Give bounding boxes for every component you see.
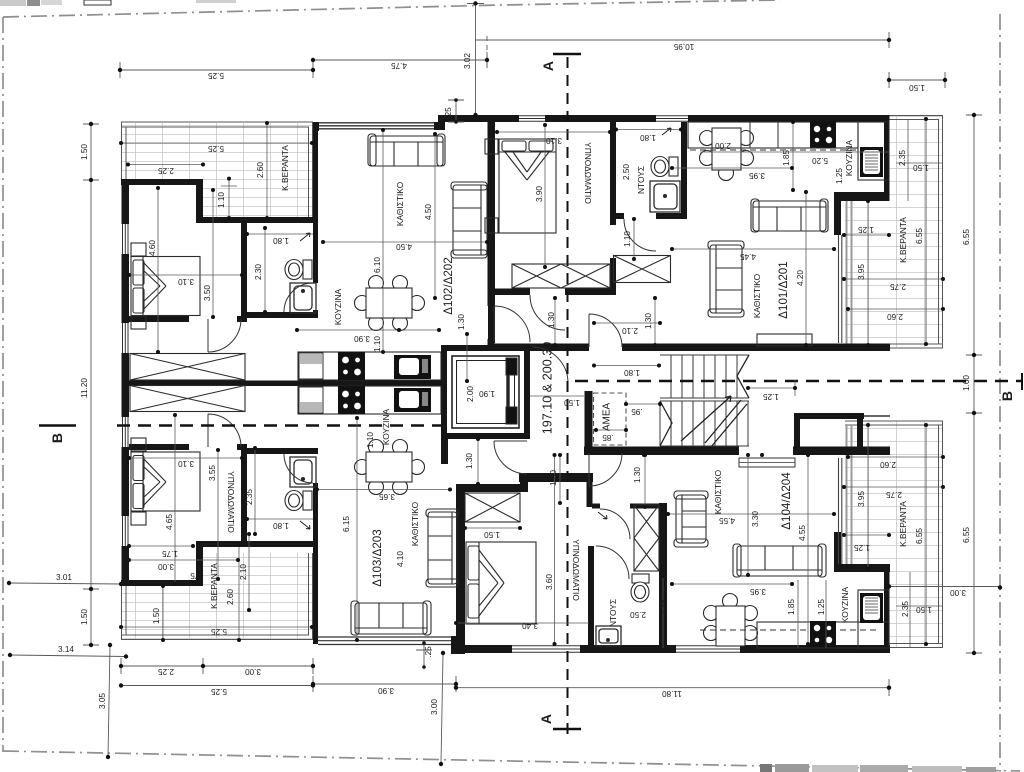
room labels: [209, 139, 908, 627]
sofa Delta101 top: [751, 199, 828, 232]
svg-text:2.60: 2.60: [226, 589, 235, 605]
door arc Delta101 bathroom: [624, 219, 656, 251]
svg-text:1.85: 1.85: [782, 150, 791, 166]
property boundary dash-dot right: [999, 14, 1001, 772]
section A marker top: [553, 53, 581, 55]
party wall between Delta102 and Delta103: [129, 381, 441, 387]
svg-text:6.55: 6.55: [915, 228, 924, 244]
Delta101 bath bottom wall: [610, 213, 624, 219]
svg-text:Δ101/Δ201: Δ101/Δ201: [777, 261, 790, 318]
toilet Delta104: [631, 574, 649, 602]
dim bottom 3.90: [313, 676, 456, 692]
svg-text:6.15: 6.15: [342, 516, 351, 532]
svg-text:2.10: 2.10: [239, 564, 248, 580]
apartment labels: [371, 257, 793, 586]
svg-text:1.10: 1.10: [366, 432, 375, 448]
sofa Delta102 top: [368, 134, 445, 166]
svg-text:4.10: 4.10: [396, 551, 405, 567]
dim bottom .25: [416, 643, 432, 667]
Delta102 right wall upper: [488, 115, 495, 306]
Delta101 bedroom bottom wall: [495, 289, 530, 296]
dim bottom 5.25: [121, 685, 313, 687]
door arc Delta101 bedroom: [530, 295, 565, 330]
svg-text:ΚΟΥΖΙΝΑ: ΚΟΥΖΙΝΑ: [381, 408, 391, 445]
toilet Delta102: [285, 260, 312, 280]
dim inner 6.55 veranda bottom: [925, 425, 927, 644]
svg-text:ΥΠΝΟΔΩΜΑΤΙΟ: ΥΠΝΟΔΩΜΑΤΙΟ: [583, 142, 593, 204]
Delta101 left wall: [488, 115, 495, 343]
svg-text:5.20: 5.20: [812, 156, 828, 165]
AMEA dashed zone: [594, 393, 627, 445]
dim right 1.60: [966, 355, 982, 413]
svg-text:4.50: 4.50: [396, 242, 412, 251]
svg-text:Δ104/Δ204: Δ104/Δ204: [780, 472, 793, 530]
svg-text:1.80: 1.80: [640, 133, 656, 142]
svg-text:10.95: 10.95: [673, 42, 694, 51]
svg-text:3.95: 3.95: [857, 264, 866, 280]
kitchen counter Delta104: [700, 590, 889, 648]
svg-text:5.25: 5.25: [208, 71, 224, 80]
section line A vertical: [567, 57, 569, 738]
svg-text:2.30: 2.30: [254, 264, 263, 280]
svg-text:3.95: 3.95: [749, 171, 765, 180]
shower Delta101: [650, 181, 680, 212]
stair direction arrows: [660, 355, 749, 447]
bed Delta102: [131, 243, 200, 329]
door arc Delta104 flat entrance: [494, 441, 527, 474]
entrance doormat: [739, 458, 795, 467]
dim bottom 2.25 / 3.00: [121, 658, 313, 674]
svg-text:2.25: 2.25: [158, 166, 174, 175]
svg-text:.85: .85: [602, 433, 614, 442]
closet X Delta101 hall: [614, 256, 671, 283]
sofa Delta103 bottom: [351, 601, 431, 635]
svg-text:1.80: 1.80: [624, 368, 640, 377]
svg-text:4.55: 4.55: [719, 516, 735, 525]
Delta101 bottom wall / stair top wall: [488, 344, 589, 352]
svg-text:ΝΤΟΥΣ: ΝΤΟΥΣ: [636, 166, 646, 194]
svg-text:3.00: 3.00: [430, 699, 439, 715]
svg-text:2.35: 2.35: [901, 601, 910, 617]
svg-text:6.55: 6.55: [962, 229, 971, 245]
svg-text:ΚΑΘΙΣΤΙΚΟ: ΚΑΘΙΣΤΙΚΟ: [713, 469, 723, 514]
svg-text:Κ.ΒΕΡΑΝΤΑ: Κ.ΒΕΡΑΝΤΑ: [898, 217, 908, 263]
svg-text:3.05: 3.05: [98, 693, 107, 709]
dim .25 top: [448, 100, 464, 122]
svg-text:.25: .25: [444, 107, 453, 119]
svg-text:ΝΤΟΥΣ: ΝΤΟΥΣ: [608, 599, 618, 627]
dim left 3.14: [10, 655, 126, 657]
bed Delta101: [485, 139, 556, 233]
kitchen counter Delta102: [298, 352, 441, 380]
door arc Delta104 bedroom: [596, 546, 629, 579]
veranda rail Delta104: [839, 458, 842, 564]
Delta101 bath east wall: [681, 122, 687, 219]
svg-text:3.01: 3.01: [56, 573, 72, 582]
svg-text:ΚΑΘΙΣΤΙΚΟ: ΚΑΘΙΣΤΙΚΟ: [410, 501, 420, 546]
svg-text:1.25: 1.25: [858, 225, 874, 234]
svg-text:2.35: 2.35: [245, 489, 254, 505]
washbasin Delta104: [596, 626, 621, 646]
svg-text:1.10: 1.10: [217, 192, 226, 208]
door arc Delta102 bedroom: [208, 319, 241, 352]
svg-text:5.25: 5.25: [208, 144, 224, 153]
svg-text:1.10: 1.10: [623, 231, 632, 247]
svg-text:1.30: 1.30: [457, 314, 466, 330]
sofa Delta104 bottom: [733, 544, 826, 577]
svg-text:3.00: 3.00: [245, 667, 261, 676]
dims Delta104 hall: [477, 439, 479, 484]
svg-text:3.90: 3.90: [535, 186, 544, 202]
svg-text:3.60: 3.60: [545, 574, 554, 590]
svg-text:Δ103/Δ203: Δ103/Δ203: [371, 529, 384, 586]
closet X Delta104 tall: [634, 505, 659, 571]
veranda hatch bottom-left: [121, 553, 313, 640]
svg-text:3.10: 3.10: [178, 459, 194, 468]
svg-text:3.90: 3.90: [354, 334, 370, 343]
svg-text:3.30: 3.30: [751, 511, 760, 527]
door arc Delta104 hall: [589, 453, 622, 486]
svg-text:4.65: 4.65: [165, 514, 174, 530]
bathtub Delta103: [290, 457, 316, 487]
toilet Delta101: [651, 157, 678, 177]
svg-text:1.25: 1.25: [817, 599, 826, 615]
section line B right: [575, 380, 1022, 383]
svg-text:1.10: 1.10: [373, 336, 382, 352]
Delta104 closet/bath east wall: [659, 503, 667, 648]
svg-text:1.25: 1.25: [854, 543, 870, 552]
armchair Delta104: [674, 491, 708, 547]
wardrobe X Delta102: [130, 354, 245, 381]
Delta102 bathroom walls: [241, 223, 247, 318]
veranda hatch right bottom: [845, 421, 943, 648]
windows top wall Delta101: [519, 116, 688, 122]
svg-text:2.10: 2.10: [622, 326, 638, 335]
windows bottom wall Delta103: [318, 637, 451, 645]
svg-text:1.50: 1.50: [909, 83, 925, 92]
svg-text:5.25: 5.25: [211, 627, 227, 636]
svg-text:2.25: 2.25: [158, 667, 174, 676]
dining table Delta104: [704, 594, 758, 647]
section line B left: [117, 424, 441, 427]
door arc Delta102 flat entrance: [494, 306, 530, 342]
svg-text:6.10: 6.10: [373, 257, 382, 273]
Delta103 bedroom top wall with door gap: [129, 444, 189, 450]
bed Delta104: [466, 542, 536, 624]
cut-off images bottom edge: [760, 764, 996, 772]
svg-text:3.90: 3.90: [378, 686, 394, 695]
svg-text:A: A: [538, 714, 554, 724]
svg-text:1.85: 1.85: [659, 599, 668, 615]
svg-text:ΚΑΘΙΣΤΙΚΟ: ΚΑΘΙΣΤΙΚΟ: [395, 181, 405, 226]
svg-text:1.25: 1.25: [835, 168, 844, 184]
dim line top 5.25: [120, 62, 313, 78]
svg-text:1.50: 1.50: [484, 530, 500, 539]
svg-text:Κ.ΒΕΡΑΝΤΑ: Κ.ΒΕΡΑΝΤΑ: [898, 501, 908, 547]
svg-text:3.14: 3.14: [58, 645, 74, 654]
svg-text:ΥΠΝΟΔΩΜΑΤΙΟ: ΥΠΝΟΔΩΜΑΤΙΟ: [571, 539, 581, 601]
dims inside Delta103: [129, 457, 242, 459]
svg-text:ΚΑΘΙΣΤΙΚΟ: ΚΑΘΙΣΤΙΚΟ: [752, 273, 762, 318]
svg-text:2.60: 2.60: [887, 312, 903, 321]
stairwell bottom wall with entrance gap: [584, 447, 739, 456]
svg-text:1.30: 1.30: [547, 312, 556, 328]
svg-text:4.20: 4.20: [796, 270, 805, 286]
Delta104 bedroom walls: [456, 484, 465, 648]
Delta102 bedroom bottom wall with door gap: [129, 316, 189, 322]
svg-text:2.00: 2.00: [466, 386, 475, 402]
Delta104 top-right walls: [794, 413, 864, 419]
door arc Delta102 bathroom: [284, 283, 313, 312]
dim left 1.50 upper: [83, 124, 99, 180]
svg-text:2.00: 2.00: [715, 141, 731, 150]
dims inside Delta101: [497, 131, 610, 133]
svg-text:1.50: 1.50: [80, 609, 89, 625]
svg-text:3.50: 3.50: [203, 285, 212, 301]
svg-text:4.75: 4.75: [391, 61, 407, 70]
svg-text:2.75: 2.75: [886, 490, 902, 499]
svg-text:4.50: 4.50: [424, 204, 433, 220]
cut-off legend images top-left: [0, 0, 236, 6]
kitchen counter Delta103: [298, 386, 441, 414]
dim right 6.55 upper: [966, 115, 982, 355]
svg-text:ΚΟΥΖΙΝΑ: ΚΟΥΖΙΝΑ: [840, 586, 850, 623]
dim right 3.00: [889, 586, 1000, 588]
sofa Delta101 left: [708, 241, 744, 317]
svg-text:5.25: 5.25: [211, 687, 227, 696]
bathtub Delta102: [290, 283, 316, 313]
svg-text:1.30: 1.30: [549, 470, 558, 486]
dim line top 10.95: [476, 32, 890, 48]
svg-text:1.80: 1.80: [273, 521, 289, 530]
dashed extension line x487: [486, 36, 488, 72]
dim bottom 11.80: [456, 679, 889, 696]
Delta104 bottom wall segments: [456, 645, 512, 653]
svg-text:1.60: 1.60: [962, 375, 971, 391]
svg-text:1.30: 1.30: [465, 453, 474, 469]
door arc hall inner top: [532, 347, 568, 383]
svg-text:ΚΟΥΖΙΝΑ: ΚΟΥΖΙΝΑ: [844, 139, 854, 176]
Delta101 kitchen right wall: [884, 115, 890, 201]
svg-text:3.10: 3.10: [546, 136, 562, 145]
svg-text:3.95: 3.95: [750, 587, 766, 596]
stairwell west wall: [585, 391, 593, 455]
svg-text:1.25: 1.25: [763, 392, 779, 401]
dim line top 1.50: [889, 72, 945, 88]
wardrobe X Delta103: [130, 386, 245, 412]
left exterior wall segments: [122, 179, 130, 224]
small arrows: [300, 128, 671, 529]
svg-text:.95: .95: [631, 407, 643, 416]
svg-text:1.50: 1.50: [564, 398, 580, 407]
Delta101 wall jog to veranda: [834, 192, 889, 201]
elevator shaft walls: [441, 345, 530, 351]
dim left 3.05: [108, 645, 110, 757]
Delta101 bedroom/bath dividing wall: [610, 122, 616, 225]
wall block Delta103 SE corner: [451, 636, 465, 654]
svg-text:1.50: 1.50: [916, 605, 932, 614]
bed Delta103: [131, 438, 200, 525]
Delta104 kitchen bump walls: [834, 564, 890, 572]
svg-text:3.10: 3.10: [178, 277, 194, 286]
core hall L-walls above Delta104: [519, 473, 593, 482]
svg-text:.25: .25: [424, 646, 433, 658]
door arc Delta104 bathroom corridor: [600, 509, 630, 539]
svg-text:Δ102/Δ202: Δ102/Δ202: [442, 257, 455, 314]
dim line top 4.75: [313, 52, 487, 68]
svg-text:3.65: 3.65: [379, 492, 395, 501]
svg-text:2.75: 2.75: [890, 282, 906, 291]
svg-text:6.55: 6.55: [962, 527, 971, 543]
top wall step Delta102: [313, 122, 319, 131]
elevator cab: [452, 356, 519, 428]
Delta103 veranda step walls: [121, 580, 203, 586]
dim inner 6.55 veranda top: [925, 119, 927, 344]
svg-text:3.55: 3.55: [208, 465, 217, 481]
svg-text:ΚΟΥΖΙΝΑ: ΚΟΥΖΙΝΑ: [333, 288, 343, 325]
svg-text:B: B: [999, 391, 1015, 401]
svg-text:Κ.ΒΕΡΑΝΤΑ: Κ.ΒΕΡΑΝΤΑ: [280, 145, 290, 191]
svg-text:1.50: 1.50: [80, 144, 89, 160]
svg-text:11.80: 11.80: [662, 689, 682, 698]
veranda rail Delta101: [839, 235, 842, 343]
wardrobe X Delta104 bedroom: [465, 493, 520, 522]
svg-text:3.02: 3.02: [463, 53, 472, 69]
dining table Delta103: [355, 440, 425, 495]
svg-text:2.35: 2.35: [898, 150, 907, 166]
dims stairs: [748, 380, 795, 396]
svg-text:Κ.ΒΕΡΑΝΤΑ: Κ.ΒΕΡΑΝΤΑ: [209, 563, 219, 609]
sofa Delta102 right: [451, 182, 487, 258]
bench Delta101: [757, 334, 812, 346]
wardrobe X Delta101 bedroom: [512, 264, 610, 288]
dims Delta104: [465, 527, 520, 529]
door arc Delta103 bathroom: [284, 454, 313, 483]
Delta103 bathroom walls: [241, 448, 247, 543]
svg-text:3.00: 3.00: [158, 562, 174, 571]
svg-text:A: A: [540, 61, 556, 71]
dim left 11.20: [90, 180, 92, 589]
dim vert 3.02: [467, 4, 484, 116]
toilet Delta103: [285, 491, 312, 511]
svg-text:2.50: 2.50: [622, 164, 631, 180]
veranda hatch top-left: [121, 122, 313, 218]
svg-text:.75: .75: [190, 571, 202, 580]
svg-text:1.30: 1.30: [633, 467, 642, 483]
dim bottom 3.00 slant: [441, 653, 443, 764]
stair flights: [660, 355, 749, 446]
door arc Delta103 bedroom: [208, 414, 241, 447]
dim right 6.55 lower: [966, 413, 982, 653]
svg-text:6.55: 6.55: [915, 528, 924, 544]
dining table Delta102: [355, 276, 425, 331]
svg-text:3.40: 3.40: [522, 621, 538, 630]
Delta102 veranda step walls: [121, 179, 203, 185]
windows in left wall: [123, 224, 129, 546]
svg-text:1.90: 1.90: [479, 389, 495, 398]
dim left 1.50 lower: [83, 589, 99, 645]
wall stub below elevator: [441, 439, 448, 464]
svg-text:11.20: 11.20: [80, 378, 89, 398]
svg-text:3.00: 3.00: [950, 588, 966, 597]
window band top wall Delta102: [319, 123, 434, 129]
sofa Delta103 right: [426, 509, 458, 587]
svg-text:4.45: 4.45: [740, 252, 756, 261]
svg-text:2.60: 2.60: [880, 460, 896, 469]
svg-text:197.10 & 200.30: 197.10 & 200.30: [540, 342, 554, 434]
svg-text:1.50: 1.50: [152, 608, 161, 624]
dim left 3.01: [9, 583, 121, 584]
svg-text:ΥΠΝΟΔΩΜΑΤΙΟ: ΥΠΝΟΔΩΜΑΤΙΟ: [226, 471, 236, 533]
svg-text:1.80: 1.80: [273, 236, 289, 245]
property boundary dash-dot top: [3, 0, 780, 17]
section A marker bottom: [553, 728, 581, 730]
svg-text:ΑΜΕΑ: ΑΜΕΑ: [602, 403, 613, 432]
svg-text:1.85: 1.85: [787, 599, 796, 615]
svg-text:1.75: 1.75: [162, 549, 178, 558]
svg-text:2.60: 2.60: [256, 162, 265, 178]
dims inside Delta102: [121, 142, 312, 144]
svg-text:B: B: [49, 433, 65, 443]
veranda hatch right top: [845, 115, 943, 348]
top wall Delta101 segments: [495, 115, 519, 122]
svg-text:4.55: 4.55: [798, 525, 807, 541]
svg-text:4.60: 4.60: [148, 240, 157, 256]
property boundary dash-dot bottom: [3, 751, 1020, 771]
dining table Delta101: [700, 128, 754, 181]
svg-text:1.30: 1.30: [644, 313, 653, 329]
svg-text:2.50: 2.50: [630, 610, 646, 619]
svg-text:1.50: 1.50: [913, 163, 929, 172]
kitchen counter Delta101: [688, 122, 889, 181]
door arc Delta101 entrance: [589, 314, 622, 347]
property boundary dash-dot left: [2, 17, 4, 752]
svg-text:3.95: 3.95: [857, 491, 866, 507]
windows bottom wall Delta104: [512, 646, 740, 653]
